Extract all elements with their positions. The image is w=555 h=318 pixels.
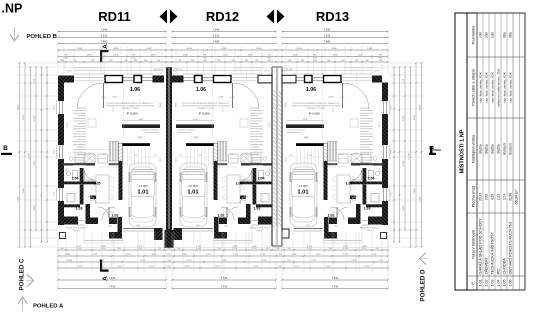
svg-text:2,715: 2,715 [315,254,321,256]
svg-text:250: 250 [168,266,171,268]
svg-text:(780): (780) [378,57,382,59]
svg-text:2,715: 2,715 [140,260,146,262]
svg-text:2,715: 2,715 [261,260,267,262]
svg-text:(1,100): (1,100) [251,248,257,250]
svg-text:PŘÍVODU ROZVODŮ TV A NAPOJENÍ: PŘÍVODU ROZVODŮ TV A NAPOJENÍ Z ROZVODNY [182,105,231,108]
svg-text:1.03: 1.03 [76,207,83,211]
svg-text:3,300: 3,300 [403,160,405,166]
svg-text:sokl: sokl [478,32,482,38]
svg-text:7,460: 7,460 [109,276,116,280]
svg-text:2,715: 2,715 [76,246,82,248]
svg-text:1,085: 1,085 [361,246,367,248]
svg-text:1.02: 1.02 [485,280,489,287]
svg-text:(1,100): (1,100) [100,248,106,250]
svg-text:2,715: 2,715 [311,260,317,262]
svg-text:2,250: 2,250 [54,150,56,155]
svg-text:1,085: 1,085 [232,246,238,248]
svg-text:lišta: lišta [502,32,506,38]
svg-text:-váp.-štuk. omítka, SDK: -váp.-štuk. omítka, SDK [508,72,512,104]
svg-text:4,050: 4,050 [187,48,193,50]
svg-text:5,680: 5,680 [414,188,416,194]
svg-text:2,200: 2,200 [34,205,36,211]
svg-text:2,715: 2,715 [77,266,83,268]
svg-text:250: 250 [279,266,282,268]
svg-text:1.05: 1.05 [236,182,243,186]
svg-text:7,480: 7,480 [213,40,220,44]
svg-text:(1,100): (1,100) [307,248,313,250]
svg-text:2,715: 2,715 [260,254,266,256]
svg-text:7,430: 7,430 [332,285,339,289]
svg-text:Nášlapná vrstva: Nášlapná vrstva [471,134,476,163]
svg-text:5,04 m2: 5,04 m2 [256,230,264,232]
svg-text:1.03: 1.03 [364,207,371,211]
svg-text:5,04 m2: 5,04 m2 [72,230,80,232]
svg-text:PŘÍVODU ROZVODŮ TV A NAPOJENÍ: PŘÍVODU ROZVODŮ TV A NAPOJENÍ Z ROZVODNY [292,105,341,108]
svg-text:5,050: 5,050 [23,114,25,120]
svg-text:250: 250 [329,248,332,250]
svg-text:2,200: 2,200 [403,205,405,211]
svg-text:1.03: 1.03 [491,280,495,287]
svg-text:1.02: 1.02 [112,214,119,218]
svg-text:-váp.-štuk. omítka, SDK: -váp.-štuk. omítka, SDK [502,72,506,104]
svg-text:1,085: 1,085 [291,254,297,256]
svg-text:5,050: 5,050 [414,114,416,120]
svg-text:250: 250 [61,248,64,250]
svg-text:PODSTROPNÍ ZAVĚŠENÍ PŘÍMOTOP.: PODSTROPNÍ ZAVĚŠENÍ PŘÍMOTOP. PANELŮ VČ. [182,102,230,105]
svg-text:(1,100): (1,100) [232,248,238,250]
svg-text:POHLED B: POHLED B [27,34,57,40]
svg-text:(780): (780) [203,57,207,59]
svg-text:2,250: 2,250 [391,150,393,155]
svg-text:dlažba: dlažba [490,144,494,154]
svg-text:linoleum: linoleum [508,143,512,155]
svg-text:1,300: 1,300 [150,55,156,57]
svg-text:(1,100): (1,100) [343,248,349,250]
svg-text:2,250: 2,250 [54,105,56,110]
svg-text:dlažba: dlažba [484,144,488,154]
svg-text:7,460: 7,460 [332,276,339,280]
svg-text:▼ 0,000: ▼ 0,000 [308,112,320,116]
svg-text:4,28: 4,28 [490,194,494,200]
svg-text:7,515: 7,515 [213,34,220,38]
svg-text:Poznámka: Poznámka [471,25,476,45]
svg-text:2,715: 2,715 [221,260,227,262]
svg-text:▼ 0,000: ▼ 0,000 [126,112,138,116]
svg-text:3,300: 3,300 [34,115,36,121]
svg-text:32,68: 32,68 [508,193,512,201]
svg-text:250: 250 [376,248,379,250]
svg-text:1.06: 1.06 [196,87,206,93]
svg-text:1,300: 1,300 [332,55,338,57]
svg-text:1,085: 1,085 [151,254,157,256]
svg-text:sokl: sokl [484,32,488,38]
svg-text:7,540: 7,540 [213,28,220,32]
svg-text:7,515: 7,515 [101,34,108,38]
svg-text:PRŮŘEZ D. 225/90: PRŮŘEZ D. 225/90 [197,107,215,110]
svg-text:5,04 m2: 5,04 m2 [366,230,374,232]
svg-text:7,515: 7,515 [324,34,331,38]
svg-text:RD11: RD11 [98,9,131,24]
svg-text:2,715: 2,715 [325,266,331,268]
svg-text:1,300: 1,300 [182,55,188,57]
svg-text:Povrch stěn a stropů: Povrch stěn a stropů [471,69,476,106]
svg-text:(1,100): (1,100) [76,248,82,250]
svg-text:6,940: 6,940 [420,104,422,110]
svg-text:lišta: lišta [508,32,512,38]
svg-text:7,430: 7,430 [221,285,228,289]
svg-text:PODSTROPNÍ ZAVĚŠENÍ PŘÍMOTOP.: PODSTROPNÍ ZAVĚŠENÍ PŘÍMOTOP. PANELŮ VČ. [106,102,154,105]
svg-text:1.04: 1.04 [497,280,501,287]
svg-text:(780): (780) [313,57,317,59]
svg-text:CHODBA: CHODBA [503,258,507,275]
svg-text:GARÁŽ A SKLAD POD SCHODY: GARÁŽ A SKLAD POD SCHODY [478,218,483,275]
svg-text:1.06: 1.06 [130,87,140,93]
svg-text:2,250: 2,250 [54,192,56,197]
svg-text:2,21: 2,21 [496,194,500,200]
svg-text:(1,100): (1,100) [361,248,367,250]
svg-text:dlažba: dlažba [496,144,500,154]
svg-text:250: 250 [279,254,282,256]
svg-text:7,540: 7,540 [101,28,108,32]
svg-text:10,760: 10,760 [409,153,411,160]
svg-text:4,050: 4,050 [256,48,262,50]
svg-text:1,300: 1,300 [113,55,119,57]
svg-text:250: 250 [168,254,171,256]
svg-text:1.05: 1.05 [94,182,101,186]
svg-text:.NP: .NP [2,2,23,16]
svg-text:PRŮŘEZ D. 225/90: PRŮŘEZ D. 225/90 [307,107,325,110]
svg-text:2,715: 2,715 [364,266,370,268]
svg-text:1,300: 1,300 [86,55,92,57]
svg-text:2,715: 2,715 [148,266,154,268]
svg-text:1.05: 1.05 [346,182,353,186]
svg-text:250: 250 [177,248,180,250]
svg-text:1.04: 1.04 [258,177,265,181]
svg-text:2,460: 2,460 [331,48,337,50]
svg-text:linoleum: linoleum [502,143,506,155]
svg-text:PRŮŘEZ D. 225/90: PRŮŘEZ D. 225/90 [121,107,139,110]
svg-text:250: 250 [168,248,171,250]
svg-text:1.06: 1.06 [509,280,513,287]
svg-text:250: 250 [288,248,291,250]
svg-text:B: B [3,145,8,152]
svg-text:1.01: 1.01 [187,190,199,196]
svg-text:3,30: 3,30 [484,194,488,200]
svg-text:POHLED D: POHLED D [420,269,427,302]
svg-text:-váp.-štuk. omítka, SDK: -váp.-štuk. omítka, SDK [478,72,482,104]
svg-text:4,050: 4,050 [113,48,119,50]
svg-text:1,300: 1,300 [357,55,363,57]
svg-text:TECHNICKÁ MÍSTNOST: TECHNICKÁ MÍSTNOST [491,231,495,274]
svg-text:2,715: 2,715 [184,266,190,268]
svg-text:1,085: 1,085 [251,246,257,248]
svg-text:(1,100): (1,100) [137,248,143,250]
svg-text:A: A [102,44,109,49]
svg-text:1.02: 1.02 [218,214,225,218]
svg-text:4,050: 4,050 [297,48,303,50]
svg-text:1,300: 1,300 [247,55,253,57]
svg-text:(780): (780) [64,57,68,59]
svg-text:(780): (780) [267,57,271,59]
svg-text:250: 250 [158,248,161,250]
svg-text:RD12: RD12 [206,9,239,24]
svg-text:1,300: 1,300 [292,55,298,57]
svg-text:sokl: sokl [490,32,494,38]
svg-text:Název místnosti: Název místnosti [471,230,476,259]
svg-text:2,715: 2,715 [253,266,259,268]
svg-text:2,460: 2,460 [221,48,227,50]
svg-text:7,480: 7,480 [324,40,331,44]
svg-text:1,085: 1,085 [100,246,106,248]
svg-text:3,300: 3,300 [403,115,405,121]
svg-text:2,460: 2,460 [77,48,83,50]
svg-text:± 0,000: ± 0,000 [188,184,198,188]
svg-text:1.04: 1.04 [72,177,79,181]
svg-text:1.06: 1.06 [306,87,316,93]
svg-text:10,760: 10,760 [29,153,31,160]
svg-text:RD13: RD13 [316,9,349,24]
svg-text:250: 250 [266,248,269,250]
svg-text:2,715: 2,715 [125,254,131,256]
svg-text:7,430: 7,430 [109,285,116,289]
svg-text:7,460: 7,460 [221,276,228,280]
svg-text:-váp.-štuk. omítka, SDK: -váp.-štuk. omítka, SDK [490,72,494,104]
svg-text:1.04: 1.04 [368,177,375,181]
svg-text:1,300: 1,300 [222,55,228,57]
svg-text:2,250: 2,250 [391,105,393,110]
svg-text:WC: WC [497,268,501,275]
svg-text:2,250: 2,250 [391,192,393,197]
svg-text:20,13: 20,13 [478,193,482,201]
svg-text:POHLED A: POHLED A [33,304,64,310]
svg-text:± 0,000: ± 0,000 [138,184,148,188]
svg-text:2,715: 2,715 [351,260,357,262]
svg-text:250: 250 [288,260,291,262]
svg-text:2,715: 2,715 [205,254,211,256]
svg-text:1.05: 1.05 [503,280,507,287]
svg-text:Č.: Č. [471,281,476,285]
svg-text:PODSTROPNÍ ZAVĚŠENÍ PŘÍMOTOP.: PODSTROPNÍ ZAVĚŠENÍ PŘÍMOTOP. PANELŮ VČ. [292,102,340,105]
svg-text:1.03: 1.03 [254,207,261,211]
svg-text:PŘÍVODU ROZVODŮ TV A NAPOJENÍ: PŘÍVODU ROZVODŮ TV A NAPOJENÍ Z ROZVODNY [106,105,155,108]
svg-text:obklad do výšky stropu, SDK: obklad do výšky stropu, SDK [496,69,500,107]
svg-text:1.02: 1.02 [328,214,335,218]
svg-text:7,540: 7,540 [324,28,331,32]
svg-text:(780): (780) [132,57,136,59]
svg-text:250: 250 [218,248,221,250]
svg-text:2,715: 2,715 [117,266,123,268]
svg-text:1,085: 1,085 [67,260,73,262]
svg-text:± 0,000: ± 0,000 [298,184,308,188]
svg-text:POHLED C: POHLED C [19,258,26,291]
svg-text:3,74: 3,74 [502,194,506,200]
svg-text:-váp.-štuk. omítka, SDK: -váp.-štuk. omítka, SDK [484,72,488,104]
svg-text:2,715: 2,715 [294,266,300,268]
svg-text:MÍSTNOSTI 1.NP: MÍSTNOSTI 1.NP [458,129,466,173]
svg-text:250: 250 [168,260,171,262]
svg-text:ZÁDVEŘÍ: ZÁDVEŘÍ [484,257,489,274]
svg-text:2,715: 2,715 [196,246,202,248]
svg-text:3,300: 3,300 [34,160,36,166]
svg-text:1,085: 1,085 [181,254,187,256]
svg-text:(1,100): (1,100) [196,248,202,250]
svg-text:OBÝVACÍ POKOJ S KUCHYNÍ: OBÝVACÍ POKOJ S KUCHYNÍ [509,221,513,274]
svg-text:2,715: 2,715 [215,266,221,268]
svg-text:250: 250 [277,248,280,250]
svg-text:6,940: 6,940 [18,104,20,110]
svg-text:1.01: 1.01 [479,280,483,287]
svg-text:7,480: 7,480 [101,40,108,44]
svg-text:dlažba: dlažba [478,144,482,154]
svg-text:7,430: 7,430 [420,196,422,202]
svg-text:2,715: 2,715 [186,260,192,262]
svg-text:66,34 m²: 66,34 m² [515,189,519,205]
svg-text:5,680: 5,680 [23,188,25,194]
svg-text:1.01: 1.01 [137,190,149,196]
svg-text:2,715: 2,715 [92,254,98,256]
svg-text:250: 250 [118,248,121,250]
svg-text:7,430: 7,430 [18,196,20,202]
svg-text:Plocha (m2): Plocha (m2) [471,185,476,207]
svg-text:1.01: 1.01 [297,190,309,196]
svg-text:▼ 0,000: ▼ 0,000 [198,112,210,116]
